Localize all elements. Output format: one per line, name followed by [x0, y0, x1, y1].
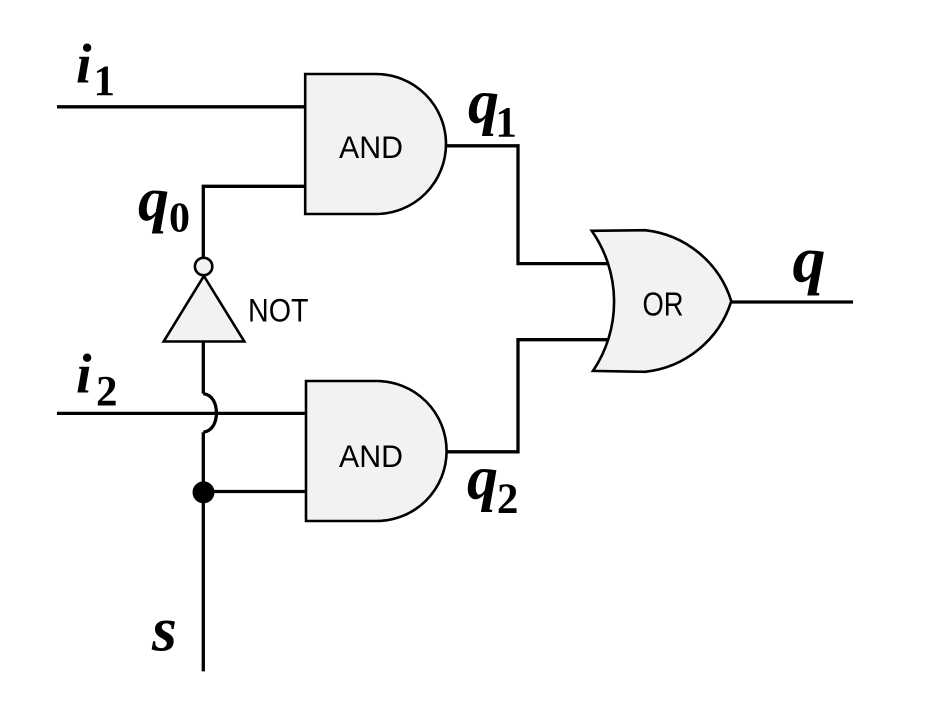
node label s: [151, 594, 177, 665]
wire hop of s over i2: [203, 394, 216, 433]
OR gate U4: [592, 230, 732, 372]
svg-text:q: q: [138, 166, 169, 234]
svg-text:i: i: [76, 34, 92, 96]
node label q: [793, 224, 826, 297]
svg-text:q: q: [468, 69, 499, 137]
wire q0 from NOT output up and right to AND1 lower input: [203, 186, 309, 260]
wire q output from OR gate: [727, 300, 853, 303]
svg-text:q: q: [467, 445, 498, 513]
svg-text:2: 2: [497, 476, 519, 523]
svg-text:NOT: NOT: [248, 292, 309, 328]
node label i2: [76, 344, 118, 416]
AND gate U2 (bottom): [306, 381, 447, 521]
svg-text:0: 0: [169, 196, 190, 242]
wire i1 input to AND1: [57, 105, 309, 108]
svg-text:1: 1: [495, 99, 517, 146]
svg-text:q: q: [793, 224, 826, 297]
svg-text:2: 2: [96, 368, 118, 415]
NOT gate U3 (inverter pointing up): [164, 276, 309, 342]
wire from s junction to AND2 lower input: [203, 490, 309, 493]
wire q1 from AND1 output to OR upper input: [443, 146, 613, 264]
wire q2 from AND2 output to OR lower input: [443, 340, 613, 452]
junction dot on s net: [193, 481, 215, 503]
node label q0: [138, 166, 190, 242]
AND gate U1 (top): [305, 74, 446, 214]
svg-text:s: s: [151, 594, 177, 665]
node label q2: [467, 445, 518, 524]
svg-text:1: 1: [94, 58, 116, 105]
wire s vertical from NOT input down to bottom (gap at hop): [202, 340, 205, 671]
NOT gate output bubble: [195, 258, 212, 275]
wire i2 input to AND2 upper input: [57, 412, 309, 415]
svg-text:OR: OR: [643, 287, 684, 324]
node label i1: [76, 34, 115, 106]
node label q1: [468, 69, 517, 147]
svg-text:i: i: [76, 344, 92, 406]
svg-text:AND: AND: [339, 129, 403, 165]
svg-text:AND: AND: [339, 438, 403, 474]
